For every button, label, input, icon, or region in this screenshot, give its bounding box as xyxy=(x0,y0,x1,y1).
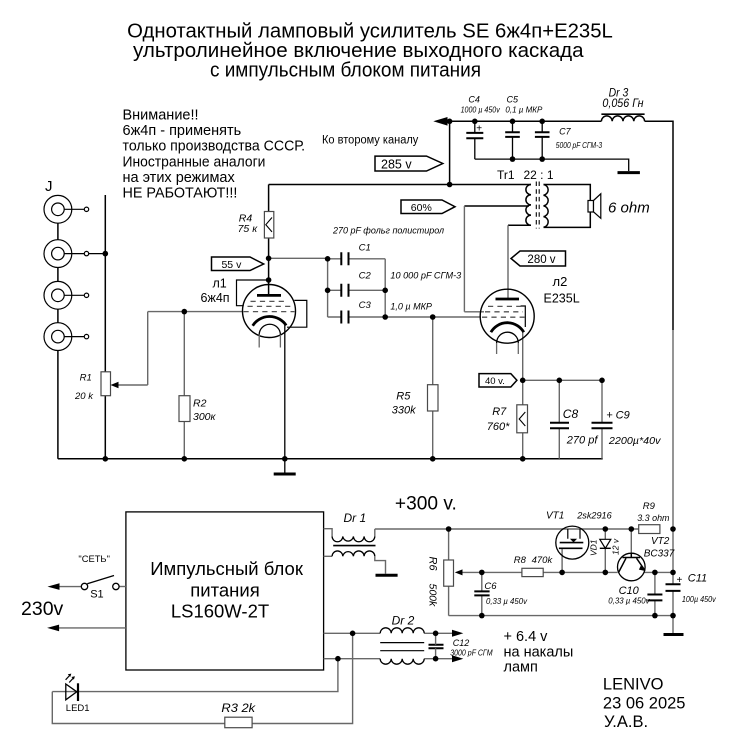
svg-text:40 v.: 40 v. xyxy=(485,376,505,387)
svg-text:VT1: VT1 xyxy=(546,511,564,522)
svg-text:3.3 ohm: 3.3 ohm xyxy=(637,513,669,524)
svg-text:2sk2916: 2sk2916 xyxy=(576,511,612,522)
svg-text:л1: л1 xyxy=(213,277,227,291)
svg-text:Dr 2: Dr 2 xyxy=(392,614,415,628)
svg-text:6ж4п - применять: 6ж4п - применять xyxy=(123,123,242,139)
svg-text:270 pF фольг полистирол: 270 pF фольг полистирол xyxy=(332,226,445,237)
svg-text:R2: R2 xyxy=(193,398,207,410)
svg-text:+ 6.4 v: + 6.4 v xyxy=(504,629,549,645)
svg-text:270 pf: 270 pf xyxy=(566,435,599,447)
svg-text:У.А.В.: У.А.В. xyxy=(604,713,648,731)
svg-text:0,056 Гн: 0,056 Гн xyxy=(602,98,644,110)
svg-text:R9: R9 xyxy=(643,501,656,512)
svg-text:R7: R7 xyxy=(492,406,507,418)
svg-text:+: + xyxy=(476,123,482,134)
svg-text:5000 pF СГМ-3: 5000 pF СГМ-3 xyxy=(556,140,603,150)
svg-text:C3: C3 xyxy=(359,300,372,311)
svg-text:1,0 µ МКР: 1,0 µ МКР xyxy=(390,302,432,313)
svg-text:Ко второму каналу: Ко второму каналу xyxy=(322,135,419,147)
svg-text:+ C9: + C9 xyxy=(606,410,630,422)
svg-text:Dr 1: Dr 1 xyxy=(344,511,367,525)
svg-text:C12: C12 xyxy=(453,638,470,648)
svg-text:питания: питания xyxy=(190,580,259,601)
svg-text:C2: C2 xyxy=(359,271,372,282)
svg-text:280 v: 280 v xyxy=(527,254,555,266)
svg-text:VD1: VD1 xyxy=(589,539,599,556)
svg-text:E235L: E235L xyxy=(544,292,580,306)
svg-text:VT2: VT2 xyxy=(651,536,670,547)
svg-text:C6: C6 xyxy=(484,581,497,592)
svg-text:10 000 pF СГМ-3: 10 000 pF СГМ-3 xyxy=(390,271,461,282)
svg-text:LENIVO: LENIVO xyxy=(603,676,664,694)
svg-text:470k: 470k xyxy=(532,555,554,566)
svg-text:6 ohm: 6 ohm xyxy=(608,200,650,217)
svg-text:только производства СССР.: только производства СССР. xyxy=(123,139,306,155)
svg-text:20 k: 20 k xyxy=(74,391,94,402)
svg-text:100µ 450v: 100µ 450v xyxy=(682,594,717,604)
svg-text:500k: 500k xyxy=(427,584,439,608)
svg-text:22 : 1: 22 : 1 xyxy=(524,168,554,182)
svg-text:1000 µ 450v: 1000 µ 450v xyxy=(461,104,501,114)
svg-text:0,33 µ 450v: 0,33 µ 450v xyxy=(608,596,650,606)
svg-text:12 v: 12 v xyxy=(611,538,621,555)
svg-text:C5: C5 xyxy=(507,95,519,105)
svg-text:S1: S1 xyxy=(90,589,103,601)
svg-text:760*: 760* xyxy=(487,421,510,433)
svg-text:0,1 µ МКР: 0,1 µ МКР xyxy=(505,104,542,114)
svg-text:2200µ*40v: 2200µ*40v xyxy=(608,435,661,447)
svg-text:J: J xyxy=(45,178,53,195)
svg-text:C1: C1 xyxy=(359,243,371,254)
svg-text:R1: R1 xyxy=(80,373,92,384)
svg-text:R5: R5 xyxy=(396,391,411,403)
svg-text:55 v: 55 v xyxy=(221,259,242,271)
svg-text:Tr1: Tr1 xyxy=(497,168,515,182)
svg-text:л2: л2 xyxy=(553,274,568,289)
svg-text:C7: C7 xyxy=(559,127,571,137)
svg-text:Иностранные аналоги: Иностранные аналоги xyxy=(123,154,266,170)
svg-text:Внимание!!: Внимание!! xyxy=(123,108,199,124)
svg-text:с импульсным блоком питания: с импульсным блоком питания xyxy=(210,60,481,82)
svg-text:230v: 230v xyxy=(21,598,64,620)
svg-text:LS160W-2T: LS160W-2T xyxy=(171,601,269,622)
svg-text:6ж4п: 6ж4п xyxy=(201,291,230,305)
svg-text:3000 pF СГМ: 3000 pF СГМ xyxy=(450,648,493,658)
svg-text:75 к: 75 к xyxy=(238,223,259,235)
svg-text:60%: 60% xyxy=(411,202,432,214)
svg-text:R8: R8 xyxy=(514,555,527,566)
svg-text:C4: C4 xyxy=(468,95,480,105)
svg-text:285 v: 285 v xyxy=(381,157,412,171)
svg-text:C11: C11 xyxy=(688,573,707,585)
svg-text:+300 v.: +300 v. xyxy=(395,493,457,515)
svg-text:НЕ РАБОТАЮТ!!!: НЕ РАБОТАЮТ!!! xyxy=(123,186,238,202)
svg-text:23 06 2025: 23 06 2025 xyxy=(603,695,686,713)
svg-text:на накалы: на накалы xyxy=(504,645,574,661)
svg-text:R6: R6 xyxy=(427,557,439,572)
svg-text:на этих режимах: на этих режимах xyxy=(123,170,236,186)
svg-text:330k: 330k xyxy=(392,405,416,417)
svg-text:+: + xyxy=(677,575,683,586)
svg-text:"СЕТЬ": "СЕТЬ" xyxy=(78,554,110,565)
svg-text:0,33 µ 450v: 0,33 µ 450v xyxy=(486,596,528,606)
svg-text:ламп: ламп xyxy=(504,660,538,676)
svg-text:LED1: LED1 xyxy=(66,703,90,714)
svg-text:BC337: BC337 xyxy=(644,549,675,560)
svg-text:300к: 300к xyxy=(193,411,217,423)
svg-text:Импульсный блок: Импульсный блок xyxy=(150,558,304,579)
svg-text:C8: C8 xyxy=(563,407,579,421)
svg-text:R3 2k: R3 2k xyxy=(221,701,256,715)
